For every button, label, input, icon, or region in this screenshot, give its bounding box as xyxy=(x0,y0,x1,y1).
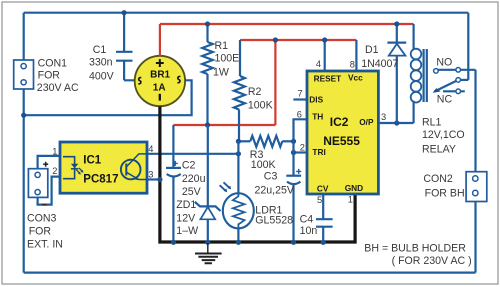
svg-text:GL5528: GL5528 xyxy=(255,214,293,226)
wire top rail (AC live) xyxy=(24,12,469,14)
svg-text:1–W: 1–W xyxy=(176,225,198,237)
svg-text:RESET: RESET xyxy=(314,73,342,83)
svg-text:220u: 220u xyxy=(182,173,206,185)
labels CON2 xyxy=(423,173,464,200)
connector CON3 xyxy=(28,156,60,205)
wire red 12V line lower xyxy=(173,124,275,126)
node D1 top xyxy=(394,21,399,26)
labels CON1 xyxy=(37,57,79,94)
capacitor C2 xyxy=(166,125,181,242)
svg-text:7: 7 xyxy=(298,88,303,98)
svg-text:3: 3 xyxy=(148,170,153,180)
svg-text:( FOR 230V AC ): ( FOR 230V AC ) xyxy=(392,255,472,267)
svg-text:2: 2 xyxy=(300,143,305,153)
svg-text:4: 4 xyxy=(316,59,321,69)
wire red 12V line upper xyxy=(240,39,356,41)
svg-text:6: 6 xyxy=(297,109,302,119)
node C2 ground xyxy=(171,240,176,245)
svg-text:8: 8 xyxy=(350,60,355,70)
labels C3 xyxy=(255,171,295,197)
node AC neutral junction xyxy=(21,113,26,118)
wire BR1 plus red riser xyxy=(159,24,161,56)
labels R2 xyxy=(248,86,273,111)
svg-text:12V: 12V xyxy=(176,212,196,224)
labels NO NC xyxy=(436,57,452,106)
resistor R2 xyxy=(234,40,245,141)
svg-text:3: 3 xyxy=(381,112,386,122)
bridge rectifier BR1 xyxy=(135,56,185,106)
svg-text:1W: 1W xyxy=(213,66,229,78)
labels CON3 xyxy=(27,212,63,250)
svg-text:C2: C2 xyxy=(182,159,196,171)
ground symbol xyxy=(195,243,222,263)
labels D1 xyxy=(361,44,398,70)
svg-text:RL1: RL1 xyxy=(422,116,442,128)
svg-text:RELAY: RELAY xyxy=(422,144,456,156)
svg-text:230V AC: 230V AC xyxy=(37,82,79,94)
node sensor left xyxy=(236,151,241,156)
svg-text:100K: 100K xyxy=(251,159,276,171)
svg-text:400V: 400V xyxy=(89,70,115,82)
pin numbers IC2 xyxy=(297,59,386,205)
svg-text:1: 1 xyxy=(348,195,353,205)
labels BH note xyxy=(364,242,471,267)
svg-text:DIS: DIS xyxy=(309,95,323,105)
svg-text:R1: R1 xyxy=(215,40,229,52)
svg-text:CV: CV xyxy=(317,184,329,194)
wire pin4 reset branch xyxy=(324,40,326,71)
svg-text:R2: R2 xyxy=(248,86,262,98)
photoresistor LDR1 xyxy=(220,182,254,228)
svg-text:C4: C4 xyxy=(300,214,314,226)
svg-text:100K: 100K xyxy=(248,99,273,111)
labels RL1 xyxy=(422,116,465,155)
wire right rail to CON2 xyxy=(474,70,476,273)
wire TRI stub xyxy=(294,151,308,153)
node LDR ground xyxy=(236,240,241,245)
capacitor C3 xyxy=(286,169,301,242)
svg-text:25V: 25V xyxy=(182,186,202,198)
svg-text:ZD1: ZD1 xyxy=(176,199,196,211)
svg-text:Vcc: Vcc xyxy=(348,73,363,83)
svg-text:NC: NC xyxy=(437,93,453,105)
svg-text:D1: D1 xyxy=(365,44,379,56)
resistor R3 xyxy=(238,136,293,147)
node C3 top xyxy=(291,150,296,155)
zener ZD1 xyxy=(195,125,221,242)
wire TH branch vertical xyxy=(294,119,308,175)
svg-text:1N4007: 1N4007 xyxy=(361,58,398,70)
wire opto collector line xyxy=(147,153,238,155)
svg-text:CON3: CON3 xyxy=(27,212,57,224)
node R1 bottom junction xyxy=(205,122,210,127)
svg-text:BH = BULB HOLDER: BH = BULB HOLDER xyxy=(364,242,466,254)
svg-text:EXT. IN: EXT. IN xyxy=(27,239,63,251)
svg-text:22u,25V: 22u,25V xyxy=(255,184,295,196)
svg-text:IC2: IC2 xyxy=(330,115,349,129)
wire C1 branch from top rail xyxy=(123,13,125,52)
node output junction xyxy=(394,120,399,125)
node R1 top junction xyxy=(205,21,210,26)
wire red 12V vertical link xyxy=(274,40,276,125)
ground bus thick black xyxy=(160,106,355,242)
IC2 NE555 xyxy=(307,71,378,194)
svg-text:O/P: O/P xyxy=(359,117,374,127)
svg-text:FOR: FOR xyxy=(29,225,52,237)
wire left rail xyxy=(23,13,25,273)
wire bottom rail xyxy=(24,272,476,274)
wire pin3 output xyxy=(378,122,413,124)
svg-text:TH: TH xyxy=(312,112,323,122)
labels LDR1 xyxy=(255,205,293,227)
labels C1 xyxy=(89,44,115,82)
pin numbers IC1 xyxy=(52,144,153,180)
node C4 ground xyxy=(321,240,326,245)
labels R3 xyxy=(250,149,276,171)
svg-text:12V,1CO: 12V,1CO xyxy=(422,129,465,141)
svg-text:IC1: IC1 xyxy=(83,155,102,167)
svg-text:10n: 10n xyxy=(300,225,318,237)
svg-text:100E: 100E xyxy=(215,53,240,65)
svg-text:CON1: CON1 xyxy=(38,57,68,69)
svg-text:NO: NO xyxy=(436,57,452,69)
svg-text:C3: C3 xyxy=(264,171,278,183)
wire AC neutral to bridge xyxy=(24,80,192,115)
svg-text:GND: GND xyxy=(345,183,363,193)
wire LDR bottom to ground bus xyxy=(237,228,239,242)
svg-text:PC817: PC817 xyxy=(83,174,118,186)
svg-text:CON2: CON2 xyxy=(423,173,453,185)
svg-text:4: 4 xyxy=(148,144,153,154)
node pin4 junction xyxy=(322,37,327,42)
relay contacts xyxy=(433,68,476,94)
wire LDR branch vertical xyxy=(237,141,239,193)
node ZD1 ground xyxy=(205,240,210,245)
resistor R1 xyxy=(202,24,213,125)
IC1 PC817 xyxy=(60,142,147,193)
svg-text:FOR: FOR xyxy=(38,70,61,82)
wire pole riser from top rail xyxy=(467,13,469,80)
capacitor C4 xyxy=(316,194,333,242)
node R3 right xyxy=(291,139,296,144)
svg-text:TRI: TRI xyxy=(312,147,325,157)
wire IC1 pin3 to ground line xyxy=(147,178,160,180)
node C3 ground xyxy=(291,240,296,245)
svg-text:FOR BH: FOR BH xyxy=(425,187,465,199)
svg-text:330n: 330n xyxy=(89,56,113,68)
labels ZD1 xyxy=(176,199,198,237)
relay coil RL1 xyxy=(411,24,427,123)
diode D1 xyxy=(387,24,406,123)
svg-text:NE555: NE555 xyxy=(323,134,360,148)
svg-text:2: 2 xyxy=(52,166,57,176)
wire pin8 vcc branch xyxy=(355,40,357,71)
capacitor C1 xyxy=(116,52,135,81)
svg-text:BR1: BR1 xyxy=(150,69,170,80)
node R3 left xyxy=(236,139,241,144)
node red link junction xyxy=(273,37,278,42)
svg-text:5: 5 xyxy=(317,195,322,205)
wire DIS stub xyxy=(293,98,307,100)
labels R1 xyxy=(213,40,239,78)
node IC1 pin3 ground xyxy=(157,177,162,182)
node C1 top rail junction xyxy=(122,10,127,15)
labels C2 xyxy=(182,159,206,198)
connector CON2 xyxy=(466,172,487,202)
svg-text:1: 1 xyxy=(52,147,57,157)
labels C4 xyxy=(300,214,318,237)
connector CON1 xyxy=(14,60,34,89)
svg-text:1A: 1A xyxy=(153,82,166,93)
svg-text:C1: C1 xyxy=(93,44,107,56)
wire red rail DC+ xyxy=(160,23,414,25)
